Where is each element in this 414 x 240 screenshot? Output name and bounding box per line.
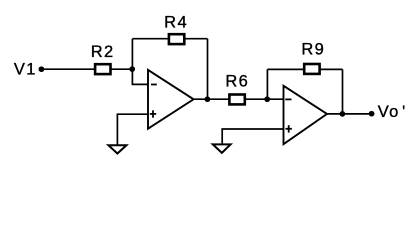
svg-text:R2: R2 <box>91 43 115 61</box>
node Vo' terminal dot <box>369 111 375 117</box>
node A junction dot <box>129 66 135 72</box>
op-amp U2 non-inverting pin mark <box>286 128 292 130</box>
node D junction dot <box>340 111 346 117</box>
op-amp U1 non-inverting pin mark <box>150 113 156 115</box>
wire U2 output to Vo' terminal <box>327 113 372 115</box>
wire V1 terminal to node A <box>41 68 132 70</box>
ground 2 <box>213 144 231 153</box>
op-amp U1 inverting pin mark <box>151 84 157 86</box>
svg-text:V1: V1 <box>14 61 37 79</box>
wire U1 non-inverting input to ground 1 <box>117 114 148 145</box>
op-amp U2 inverting pin mark <box>285 98 291 100</box>
wire R4 right vertical down to node B <box>207 39 209 99</box>
wire R9 feedback top run <box>267 68 342 70</box>
resistor R6 <box>229 95 244 105</box>
node V1 terminal dot <box>39 66 45 72</box>
wire node A branch down to U1 inverting input <box>132 39 148 85</box>
svg-text:R4: R4 <box>164 14 188 32</box>
resistor R9 <box>304 64 319 74</box>
node B junction dot <box>205 96 211 102</box>
wire node C vertical up to R9 run <box>266 69 268 99</box>
op-amp U2 <box>284 86 328 144</box>
resistor R4 <box>169 34 184 44</box>
op-amp U1 <box>148 70 194 129</box>
wire U2 non-inverting input to ground 2 <box>222 129 283 144</box>
resistor R2 <box>95 64 110 74</box>
svg-text:R6: R6 <box>225 73 249 91</box>
node C junction dot <box>264 96 270 102</box>
svg-text:R9: R9 <box>301 41 325 59</box>
ground 1 <box>108 145 126 153</box>
svg-text:Vo': Vo' <box>378 103 407 121</box>
wire U1 output through R6 to U2 inverting input <box>194 98 284 100</box>
wire R4 feedback top run <box>132 38 207 40</box>
wire R9 right vertical down to node D <box>342 69 344 114</box>
